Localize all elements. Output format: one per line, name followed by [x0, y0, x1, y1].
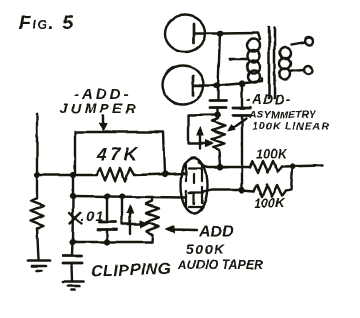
capacitor asym left	[210, 86, 227, 114]
arrow to asym pot	[228, 119, 247, 132]
potentiometer 500K track	[146, 197, 159, 242]
wire main bus	[37, 174, 97, 176]
tube V1 envelope	[181, 158, 208, 214]
inductor primary	[247, 39, 260, 83]
wire clipping bottom	[73, 241, 153, 243]
terminal top	[305, 37, 313, 45]
wire T1 lead	[194, 32, 220, 34]
label ADD ASYMMETRY 100K LINEAR	[246, 92, 330, 133]
node bus-mid	[70, 172, 76, 178]
resistor 100K top	[250, 161, 282, 174]
wire bus to tube	[134, 174, 186, 176]
title Fig.5	[19, 13, 74, 34]
potentiometer asym track	[212, 115, 225, 168]
label ADD JUMPER	[60, 86, 139, 116]
wire clipping left side	[71, 196, 74, 242]
wire top to transformer	[220, 33, 260, 39]
capacitor to ground	[63, 242, 83, 281]
inductor secondary	[280, 48, 292, 80]
svg-text:100K: 100K	[254, 197, 285, 211]
capacitor .01	[98, 196, 117, 242]
label CLIPPING	[91, 261, 172, 281]
svg-text:100K LINEAR: 100K LINEAR	[252, 121, 330, 133]
wire input stub vertical	[36, 114, 38, 175]
wire center tap	[230, 58, 247, 60]
label 47K	[96, 145, 141, 165]
node clip-c1	[104, 193, 110, 199]
svg-text:500K: 500K	[186, 241, 225, 257]
svg-text:JUMPER: JUMPER	[60, 100, 139, 116]
svg-text:CLIPPING: CLIPPING	[91, 261, 172, 281]
node T2	[214, 82, 221, 89]
label 100K bottom	[254, 197, 285, 211]
X cut mark	[70, 213, 82, 225]
svg-text:ADD: ADD	[198, 224, 234, 241]
label 100K top	[256, 147, 287, 161]
resistor 100K bottom	[253, 185, 286, 198]
terminal bottom	[304, 66, 312, 74]
node clip-tl	[70, 193, 76, 199]
wire plate A	[199, 162, 250, 167]
node clip-pot	[119, 193, 125, 199]
tube V1 internals	[186, 163, 203, 207]
label .01	[81, 208, 104, 224]
node bus-right	[162, 171, 168, 177]
wire output	[282, 166, 322, 167]
node plate B	[239, 187, 245, 193]
svg-text:FIG. 5: FIG. 5	[19, 13, 74, 34]
wire secondary top lead	[291, 42, 306, 45]
tube T1 plate bar	[193, 24, 196, 43]
node clip-bc	[104, 239, 110, 245]
wire plate B	[203, 190, 253, 192]
wire bus down to clipping net	[72, 175, 74, 196]
svg-text:AUDIO TAPER: AUDIO TAPER	[177, 258, 263, 272]
transformer core	[269, 27, 275, 98]
svg-text:ASYMMETRY: ASYMMETRY	[248, 109, 317, 121]
arrow to 500K pot	[166, 226, 197, 233]
node bus-left	[34, 172, 40, 178]
jumper wire (box)	[75, 132, 165, 175]
svg-text:100K: 100K	[256, 147, 287, 161]
tube T2 plate bar	[192, 76, 195, 95]
node asym top	[215, 111, 221, 117]
resistor left to ground	[31, 175, 44, 259]
ground left	[28, 261, 50, 272]
tube T1 envelope	[165, 15, 206, 52]
node clip-bl	[69, 239, 75, 245]
node T1	[217, 30, 224, 37]
potentiometer 500K wiper	[122, 196, 148, 234]
wire bottom primary	[217, 78, 262, 86]
svg-text:47K: 47K	[96, 145, 141, 165]
node plate A	[217, 164, 223, 170]
wire T2 lead	[193, 84, 217, 86]
tube T2 envelope	[163, 66, 204, 105]
wire 100K bottom up	[286, 168, 293, 191]
wire clipping top	[73, 196, 186, 198]
wire secondary bottom lead	[291, 70, 305, 71]
label ADD 500K AUDIO TAPER	[177, 224, 263, 273]
capacitor asym right	[234, 84, 251, 190]
resistor 47K	[96, 168, 134, 181]
node output join	[290, 163, 296, 169]
arrow to jumper	[100, 116, 107, 131]
node primary bottom	[239, 80, 245, 86]
wire tubes vertical	[218, 34, 220, 87]
ground clipping	[63, 282, 84, 291]
potentiometer asym wiper	[188, 115, 218, 149]
